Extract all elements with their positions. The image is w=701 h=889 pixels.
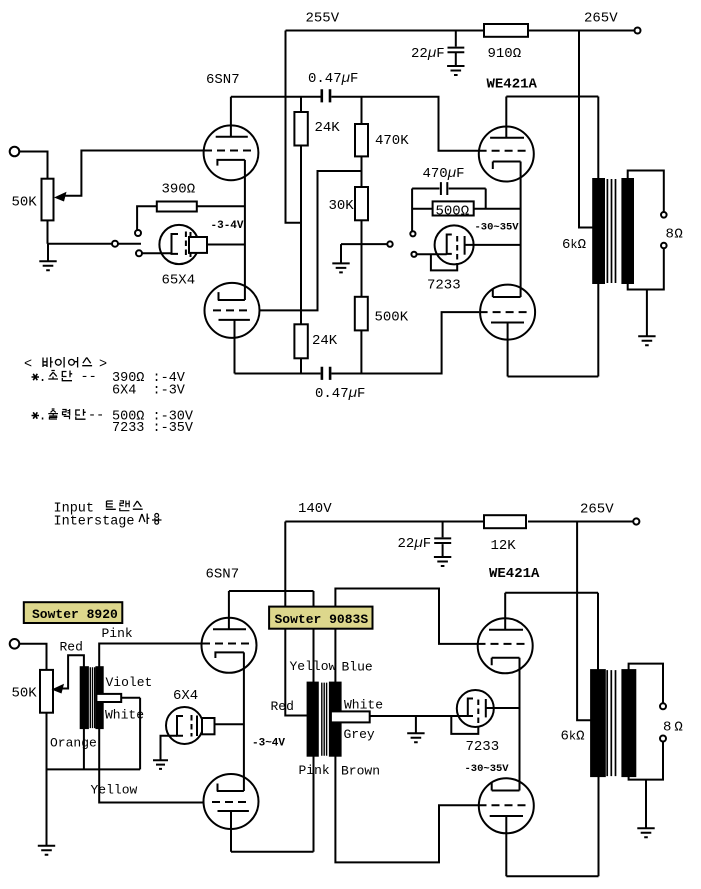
resistor 12K xyxy=(484,515,526,528)
wire 140V to interstage primary tap (Red) xyxy=(285,522,307,716)
terminal 8 ohm upper bottom xyxy=(660,703,666,709)
transformer T3 secondary bar xyxy=(330,683,341,756)
svg-text:Sowter 8920: Sowter 8920 xyxy=(32,607,118,622)
switch contact upper xyxy=(135,230,141,236)
svg-text:470K: 470K xyxy=(375,133,409,149)
svg-text:White: White xyxy=(344,698,383,713)
resistor 500 ohm box xyxy=(412,208,520,210)
wire lower plate to coupling xyxy=(235,373,321,375)
wire WE421A cathode bus bottom xyxy=(519,658,521,791)
wire 6X4 cathode to ground xyxy=(161,736,178,760)
wire Blue secondary top to WE421A grid xyxy=(335,589,477,683)
terminal 8 ohm upper xyxy=(661,212,667,218)
wire lower grid network xyxy=(260,171,362,310)
svg-text:--: -- xyxy=(81,370,97,385)
wire input to pot xyxy=(19,152,47,179)
svg-text:Pink: Pink xyxy=(299,763,330,778)
wire lower plate to interstage Pink lead xyxy=(231,756,314,852)
wire plate to output transformer bottom circuit xyxy=(505,593,598,670)
svg-text:.: . xyxy=(39,371,47,386)
wire secondary to 8 ohm terminals xyxy=(628,171,664,337)
wire pot wiper to 6SN7 grid xyxy=(63,151,204,196)
transformer T3 core lines xyxy=(322,683,327,756)
wire 6X4 plate to cathode bus xyxy=(214,723,244,725)
ground 22uF bottom xyxy=(434,557,451,566)
wire 7233 plate to cathode bus bottom xyxy=(486,707,520,709)
svg-text:Grey: Grey xyxy=(344,727,375,742)
transformer T4 output primary bar bottom xyxy=(591,670,605,776)
wire plate to interstage Yellow lead xyxy=(229,591,314,683)
ground 30K junction xyxy=(332,263,349,272)
ground tap White/Grey xyxy=(415,716,417,733)
resistor 30K xyxy=(355,187,368,220)
wire 140V B+ rail bottom xyxy=(285,521,633,523)
svg-text:50K: 50K xyxy=(12,686,38,702)
svg-text:12K: 12K xyxy=(491,538,517,554)
transformer T2 secondary bar xyxy=(96,667,102,728)
transformer T4 secondary bar bottom xyxy=(622,670,635,776)
resistor 390 ohm xyxy=(137,206,245,230)
wire 30K junction to ground and switch xyxy=(341,244,387,263)
svg-text:Interstage: Interstage xyxy=(54,515,135,530)
tube 6X4 xyxy=(166,707,203,744)
ground secondary bottom circuit xyxy=(637,828,654,837)
wire secondary to 8 ohm terminals bottom xyxy=(629,664,663,828)
wiper arrowhead bottom xyxy=(52,684,65,694)
input terminal top circuit xyxy=(10,147,20,157)
wire pot bottom to ground bottom xyxy=(46,713,48,846)
svg-text:WE421A: WE421A xyxy=(487,77,538,93)
tube 7233 bottom circuit xyxy=(457,690,494,727)
wire primary bottom lead xyxy=(597,283,599,377)
tap Violet/White center xyxy=(96,694,121,702)
svg-text:7233: 7233 xyxy=(427,278,461,294)
svg-text:6kΩ: 6kΩ xyxy=(562,237,586,253)
callout Sowter 8920 xyxy=(24,602,123,623)
wire Brown secondary bottom to lower WE421A grid xyxy=(335,756,479,863)
transformer T1 output primary bar xyxy=(593,179,604,283)
svg-text:0.47µF: 0.47µF xyxy=(315,386,365,402)
tube 6SN7 upper triode xyxy=(204,125,259,180)
wire B+ to output transformer primary tap xyxy=(579,31,593,228)
svg-text:--: -- xyxy=(88,409,104,424)
svg-text:7233: 7233 xyxy=(466,739,500,755)
potentiometer 50K top xyxy=(42,179,54,221)
wire input to pot bottom xyxy=(19,644,46,670)
svg-text:.: . xyxy=(39,410,47,425)
svg-text:Blue: Blue xyxy=(342,660,373,675)
svg-text:-3-4V: -3-4V xyxy=(211,220,244,232)
svg-text:265V: 265V xyxy=(584,11,618,27)
svg-text:Orange: Orange xyxy=(50,736,97,751)
tube WE421A lower bottom circuit xyxy=(479,778,534,833)
transformer T2 core lines xyxy=(90,667,94,728)
wire Yellow secondary bottom to lower grid xyxy=(99,728,203,802)
tube 6SN7 upper bottom circuit xyxy=(202,618,257,673)
svg-text:Red: Red xyxy=(271,699,294,714)
svg-text:-3~4V: -3~4V xyxy=(252,738,285,750)
tube 7233 xyxy=(435,225,474,264)
tube WE421A upper bottom circuit xyxy=(478,618,533,673)
capacitor 470uF xyxy=(412,182,486,231)
wire cathode bus bottom 6SN7 xyxy=(243,652,245,791)
tube 6SN7 lower triode xyxy=(205,283,260,338)
wire primary top lead xyxy=(597,97,599,180)
ground pot top circuit xyxy=(47,244,49,261)
svg-text:<: < xyxy=(24,358,32,373)
svg-text:Sowter 9083S: Sowter 9083S xyxy=(275,612,369,627)
wire cathode bus 6SN7 xyxy=(244,160,246,300)
svg-text:6SN7: 6SN7 xyxy=(206,72,240,88)
wire B+ to output transformer bottom xyxy=(577,522,591,721)
svg-text:Red: Red xyxy=(60,640,83,655)
svg-text:30K: 30K xyxy=(329,198,355,214)
wire 255V B+ rail xyxy=(286,30,635,32)
ground pot bottom circuit xyxy=(38,846,55,855)
svg-text:265V: 265V xyxy=(580,502,614,518)
wire coupling cap to WE421A grid xyxy=(331,97,479,151)
capacitor 22uF bottom xyxy=(434,522,451,557)
wire 7233 cathode to switch xyxy=(417,253,447,255)
svg-text:390Ω: 390Ω xyxy=(162,182,196,198)
callout Sowter 9083S xyxy=(269,607,372,629)
wire WE421A plate to transformer xyxy=(506,96,598,98)
wire 65X4 plate to cathode bus xyxy=(207,244,245,246)
terminal 265V bottom xyxy=(633,518,639,524)
svg-text:7233 :-35V: 7233 :-35V xyxy=(112,421,194,436)
label bias line3: chulryeokdan 500ohm -30V xyxy=(32,412,40,418)
svg-text:Brown: Brown xyxy=(341,764,380,779)
switch contact circles 7233 xyxy=(410,231,415,236)
svg-text:255V: 255V xyxy=(306,11,340,27)
svg-text:6X4: 6X4 xyxy=(173,688,198,704)
svg-text:22µF: 22µF xyxy=(398,536,432,552)
svg-text:65X4: 65X4 xyxy=(162,273,196,289)
terminal 265V output xyxy=(635,28,641,34)
tube WE421A upper xyxy=(479,127,534,182)
tube 6SN7 lower bottom circuit xyxy=(204,774,259,829)
wire pot bottom node xyxy=(48,220,113,243)
wire lower plate to transformer bottom xyxy=(506,776,598,876)
svg-text:>: > xyxy=(99,358,107,373)
potentiometer 50K bottom xyxy=(40,670,53,713)
svg-text:140V: 140V xyxy=(298,501,332,517)
label bias line1: chodan 390ohm -4V xyxy=(32,374,40,380)
svg-text:-30~35V: -30~35V xyxy=(465,763,510,775)
terminal 8 ohm lower xyxy=(661,243,667,249)
wire Orange primary bottom lead xyxy=(83,728,85,769)
input terminal bottom circuit xyxy=(10,639,20,649)
switch blade wire xyxy=(118,243,141,245)
svg-text:0.47µF: 0.47µF xyxy=(308,71,358,87)
transformer T1 secondary bar xyxy=(622,179,633,283)
terminal 8 ohm lower bottom xyxy=(660,736,666,742)
svg-text:50K: 50K xyxy=(12,195,38,211)
terminal circle bias feed xyxy=(387,241,392,246)
transformer T1 core lines xyxy=(607,179,615,283)
resistor 500K xyxy=(355,297,368,331)
resistor 470K xyxy=(361,97,363,187)
resistor 24K lower xyxy=(294,324,307,358)
tap White/Grey with wire to 7233 cathode xyxy=(331,711,370,722)
resistor 910 ohm xyxy=(484,24,528,37)
resistor 24K upper xyxy=(300,97,302,324)
wire 65X4 cathode to switch xyxy=(142,252,172,254)
tube 65X4 xyxy=(159,225,198,264)
svg-text:Yellow: Yellow xyxy=(290,659,337,674)
svg-text:24K: 24K xyxy=(315,120,341,136)
svg-text:22µF: 22µF xyxy=(411,46,445,62)
capacitor 0.47uF top xyxy=(322,89,330,102)
svg-text:6kΩ: 6kΩ xyxy=(561,729,585,745)
transformer T3 interstage primary bar xyxy=(308,683,318,756)
wire 7233 plate to cathode bus xyxy=(465,244,521,246)
svg-text:470µF: 470µF xyxy=(423,166,465,182)
ground 6X4 xyxy=(153,760,168,769)
svg-text:24K: 24K xyxy=(312,333,338,349)
svg-text:Yellow: Yellow xyxy=(91,783,138,798)
wire common return bottom xyxy=(47,698,141,770)
switch pole circle xyxy=(112,241,118,247)
transformer T2 input primary bar xyxy=(81,667,88,728)
ground 22uF xyxy=(447,66,464,75)
switch contact lower xyxy=(136,250,142,256)
svg-text:White: White xyxy=(105,708,144,723)
wire lower plate to transformer xyxy=(508,376,599,378)
wire plate to coupling cap xyxy=(231,96,321,98)
svg-text:Violet: Violet xyxy=(106,675,153,690)
tube WE421A lower xyxy=(480,285,535,340)
svg-text:6SN7: 6SN7 xyxy=(206,567,240,583)
transformer T4 core lines xyxy=(607,670,615,776)
svg-text:500K: 500K xyxy=(375,310,409,326)
svg-text:WE421A: WE421A xyxy=(489,566,540,582)
wire 255V to 24K node xyxy=(286,31,302,223)
wiper arrowhead xyxy=(54,192,67,202)
svg-text:-30~35V: -30~35V xyxy=(475,222,520,234)
capacitor 0.47uF bottom xyxy=(322,367,330,380)
ground secondary top circuit xyxy=(638,336,655,345)
svg-text:8Ω: 8Ω xyxy=(666,227,683,243)
svg-text:Pink: Pink xyxy=(102,626,133,641)
capacitor 22uF top circuit xyxy=(448,31,465,66)
svg-text:910Ω: 910Ω xyxy=(488,46,522,62)
wire WE421A cathode bus xyxy=(520,162,522,298)
svg-text:6X4 :-3V: 6X4 :-3V xyxy=(112,384,186,399)
wire Pink secondary top to 6SN7 grid xyxy=(99,644,203,668)
svg-text:500Ω: 500Ω xyxy=(436,204,470,220)
wire pot wiper to transformer primary (Red) xyxy=(60,655,84,688)
wire to lower WE421A grid xyxy=(331,312,479,373)
